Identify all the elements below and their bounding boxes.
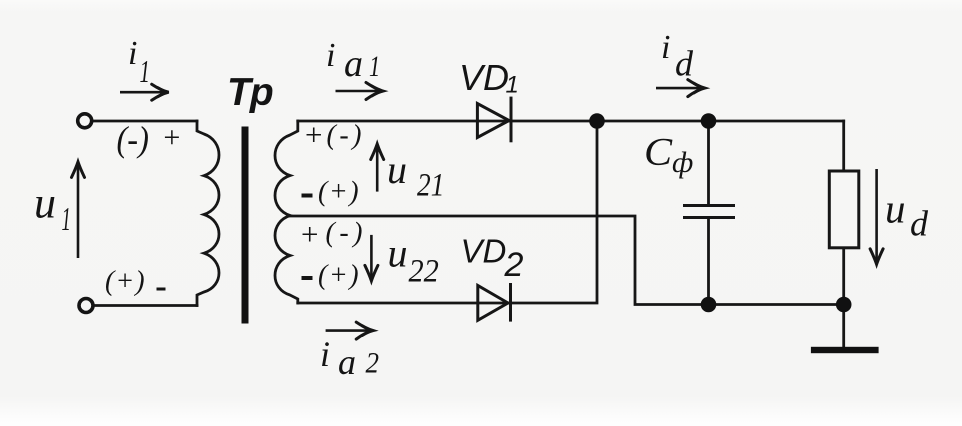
svg-text:ф: ф: [672, 146, 693, 179]
svg-text:22: 22: [409, 252, 439, 288]
svg-text:d: d: [675, 44, 694, 84]
svg-text:(+): (+): [318, 260, 360, 291]
svg-text:(-): (-): [117, 119, 149, 159]
svg-text:i: i: [661, 29, 670, 66]
svg-text:d: d: [910, 204, 929, 244]
svg-text:a: a: [338, 342, 356, 382]
svg-text:i: i: [326, 37, 335, 74]
svg-text:2: 2: [504, 246, 524, 284]
svg-text:u: u: [34, 179, 56, 228]
svg-text:u: u: [885, 186, 906, 232]
svg-text:(+): (+): [318, 177, 360, 208]
svg-text:(-): (-): [326, 218, 367, 249]
svg-text:a: a: [344, 43, 363, 85]
svg-text:C: C: [644, 130, 673, 173]
svg-text:(-): (-): [327, 120, 365, 151]
svg-text:1: 1: [62, 200, 71, 237]
svg-text:2: 2: [366, 347, 379, 380]
svg-text:(+): (+): [105, 266, 146, 297]
svg-text:Тр: Тр: [227, 71, 274, 114]
svg-text:+: +: [162, 121, 182, 154]
svg-text:u: u: [387, 147, 407, 192]
svg-text:1: 1: [506, 72, 519, 99]
svg-text:1: 1: [369, 49, 380, 83]
svg-text:21: 21: [417, 166, 444, 203]
svg-text:u: u: [388, 231, 408, 276]
svg-text:VD: VD: [461, 233, 507, 270]
svg-text:+: +: [303, 117, 324, 152]
svg-text:+: +: [299, 217, 320, 252]
svg-text:1: 1: [140, 54, 150, 90]
svg-text:i: i: [320, 334, 330, 374]
svg-text:i: i: [128, 35, 137, 72]
svg-text:VD: VD: [459, 57, 509, 98]
